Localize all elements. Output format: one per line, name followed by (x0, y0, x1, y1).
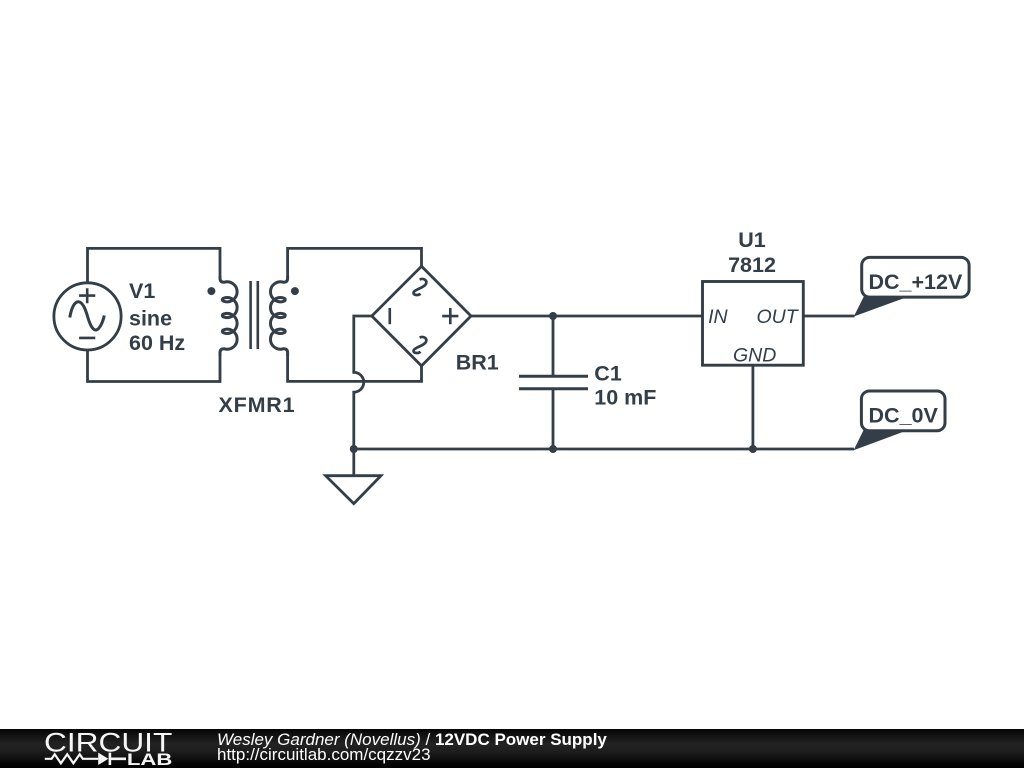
wire GND pin (752, 365, 755, 449)
label C1 10 mF (594, 362, 656, 410)
ground (326, 449, 381, 504)
svg-text:60 Hz: 60 Hz (129, 331, 185, 355)
svg-text:DC_0V: DC_0V (869, 404, 939, 428)
wire top rail from bridge to U1 (471, 315, 703, 318)
footer bar (0, 729, 1024, 768)
label V1 sine 60 Hz (129, 279, 185, 355)
junction node gnd2 (549, 445, 557, 453)
svg-text:7812: 7812 (728, 253, 776, 277)
junction node gnd1 (350, 445, 358, 453)
label U1 7812 (728, 228, 776, 277)
regulator U1 (703, 282, 804, 366)
svg-text:XFMR1: XFMR1 (219, 393, 296, 417)
wire bottom rail (354, 448, 854, 451)
bridge rectifier BR1 (372, 266, 471, 366)
wire primary loop bottom (88, 350, 221, 382)
capacitor C1 (519, 316, 588, 449)
svg-text:BR1: BR1 (456, 350, 499, 374)
wire OUT pin (803, 315, 854, 318)
svg-text:OUT: OUT (757, 306, 800, 328)
svg-text:U1: U1 (738, 228, 766, 252)
svg-text:sine: sine (129, 307, 172, 331)
flag DC_0V (854, 391, 945, 450)
junction node A (549, 312, 557, 320)
svg-text:V1: V1 (129, 279, 155, 303)
wire primary loop top (88, 248, 221, 283)
svg-text:10 mF: 10 mF (594, 385, 656, 409)
CircuitLab logo (0, 729, 200, 768)
voltage source V1 (54, 283, 121, 350)
svg-text:GND: GND (733, 345, 776, 367)
svg-text:LAB: LAB (127, 751, 173, 768)
wire bridge left corner to ground (with hop) (354, 316, 372, 449)
svg-text:DC_+12V: DC_+12V (868, 270, 962, 294)
svg-text:C1: C1 (594, 362, 622, 386)
svg-text:IN: IN (708, 306, 728, 328)
wire secondary loop top (288, 248, 422, 277)
flag DC_+12V (854, 257, 969, 316)
wire secondary loop bottom (288, 355, 422, 381)
junction node gnd3 (749, 445, 757, 453)
transformer XFMR1 (207, 276, 299, 356)
